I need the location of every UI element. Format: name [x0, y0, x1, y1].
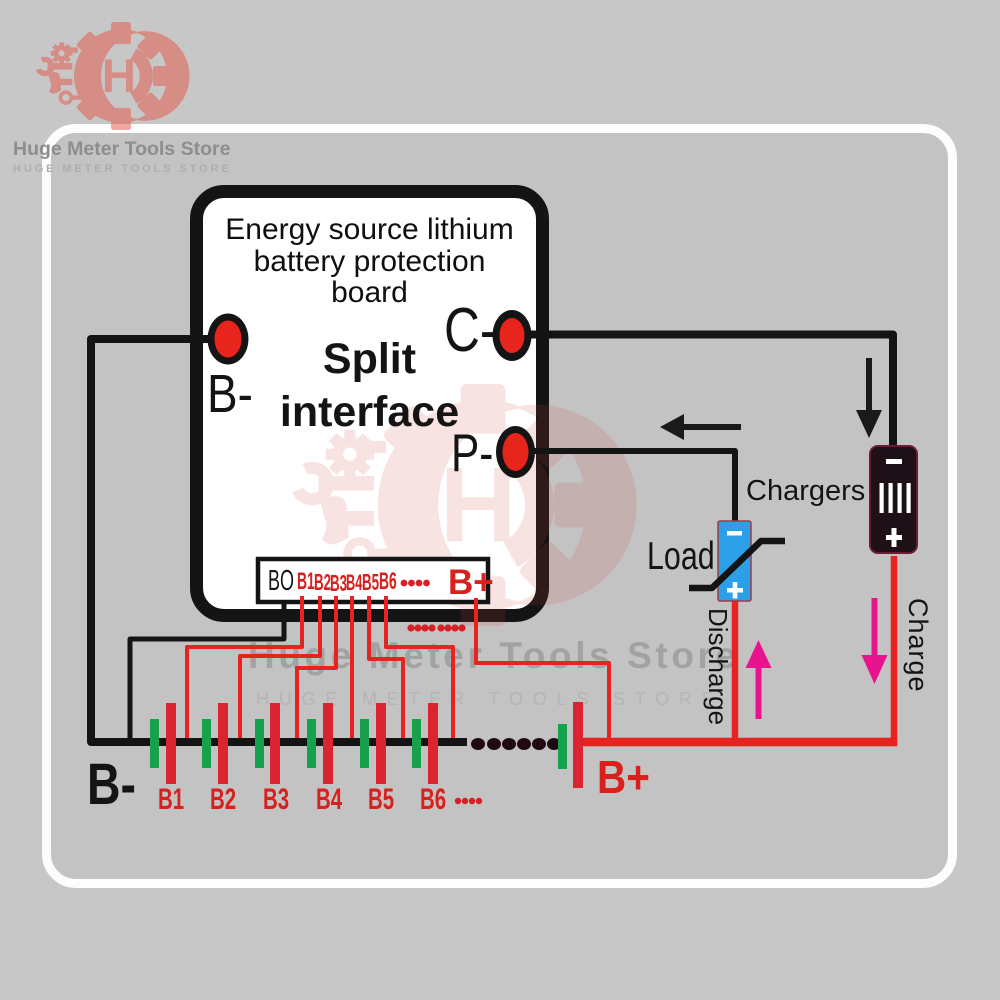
- charger body: [870, 446, 917, 553]
- label C- terminal: [444, 295, 496, 366]
- terminal B-: [208, 314, 249, 365]
- battery last cell plates (B+): [558, 724, 567, 769]
- label B- battery: [87, 751, 136, 818]
- strip pin label B1: [297, 568, 315, 596]
- strip pin label B2: [314, 569, 331, 596]
- store name header: [13, 138, 473, 161]
- wire B0 black sense: [130, 596, 284, 738]
- store name header spaced: [13, 163, 513, 175]
- load plus: [727, 588, 743, 593]
- BMS protection board box: [190, 185, 549, 622]
- load switch diagonal: [689, 541, 785, 588]
- battery cell 3 plates: [255, 719, 264, 768]
- charger minus: [886, 459, 902, 464]
- terminal C-: [493, 310, 532, 361]
- red sense wire B2: [240, 596, 320, 738]
- red sense wire B6: [386, 596, 453, 738]
- red sense wire B4: [350, 596, 354, 738]
- label B- terminal: [207, 363, 253, 425]
- red dots inside strip: [401, 580, 430, 587]
- battery cell 5 plates: [360, 719, 369, 768]
- series dots between cells: [471, 738, 561, 750]
- red main bus battery+ to charger: [580, 738, 897, 747]
- label Charge (vertical): [902, 598, 933, 693]
- charger grille: [880, 483, 884, 513]
- load body: [718, 521, 751, 601]
- label P- terminal: [451, 423, 493, 484]
- wire B- from terminal to battery bus: [91, 339, 467, 742]
- watermark text spaced: [256, 689, 856, 710]
- red wire load to bus: [732, 601, 739, 738]
- charger plus: [886, 535, 902, 540]
- label Chargers: [746, 475, 865, 508]
- label B+ battery: [597, 750, 650, 804]
- battery cell labels B1..B6: [158, 783, 184, 817]
- header logo instance: [38, 23, 189, 130]
- battery cell 1 plates: [150, 719, 159, 768]
- watermark text over wires area: [248, 635, 848, 677]
- red dots under strip: [407, 624, 465, 631]
- pink arrow down (charge): [872, 598, 878, 657]
- arrow left discharge direction: [684, 424, 741, 430]
- strip pin label B4: [346, 570, 362, 596]
- balance strip connector: [258, 559, 488, 602]
- strip pin label B5: [362, 569, 379, 596]
- strip pin label B0: [268, 565, 294, 598]
- strip pin label B3: [330, 570, 347, 597]
- load minus: [727, 531, 742, 536]
- battery cell 4 plates: [307, 719, 316, 768]
- battery cell 2 plates: [202, 719, 211, 768]
- arrow down into charger: [866, 358, 872, 413]
- board title text: [190, 214, 549, 309]
- pink arrow up (discharge): [756, 666, 762, 719]
- terminal P-: [496, 426, 535, 478]
- strip label B+: [448, 563, 494, 603]
- strip pin label B6: [379, 568, 397, 596]
- wire C- to charger: [512, 335, 893, 447]
- red sense wire B1: [187, 596, 302, 738]
- outer rounded panel frame: [42, 124, 957, 888]
- red dots after battery label B6: [455, 798, 482, 804]
- label Discharge (vertical): [702, 608, 733, 725]
- red wire strip B+: [476, 598, 609, 738]
- red sense wire B5: [369, 596, 403, 738]
- label Load: [647, 535, 715, 579]
- wire P- to load: [515, 451, 735, 521]
- red sense wire B3: [297, 596, 336, 738]
- battery cell 6 plates: [412, 719, 421, 768]
- Split interface label: [190, 335, 549, 384]
